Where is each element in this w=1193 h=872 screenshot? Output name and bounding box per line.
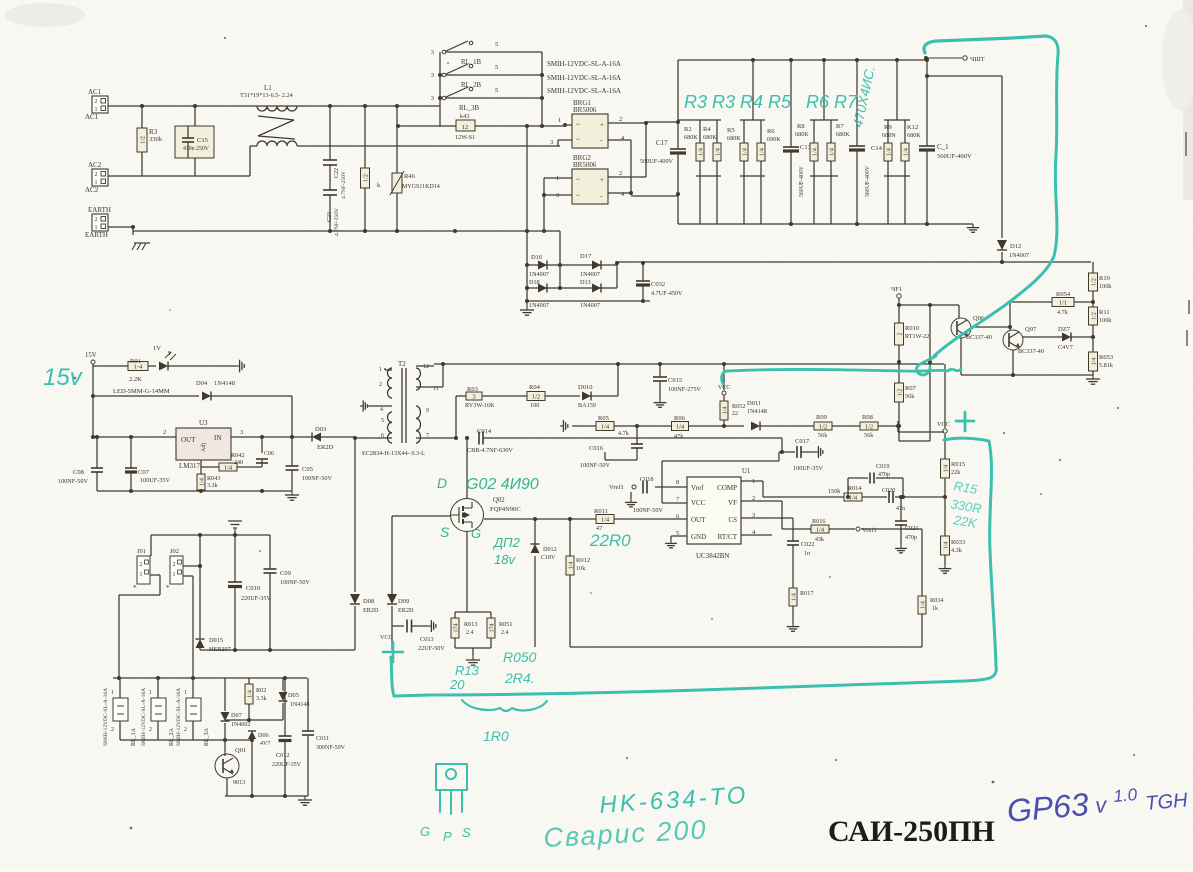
svg-text:8: 8 (676, 479, 679, 486)
svg-text:C14: C14 (871, 145, 883, 152)
svg-text:BA159: BA159 (578, 402, 596, 409)
svg-text:1N4148: 1N4148 (747, 408, 767, 415)
svg-text:3: 3 (431, 49, 434, 56)
svg-text:4.7UF-450V: 4.7UF-450V (651, 290, 683, 297)
svg-text:R06: R06 (674, 415, 686, 422)
svg-text:R012: R012 (576, 557, 590, 564)
svg-text:680K: 680K (684, 134, 698, 141)
svg-text:1: 1 (95, 225, 98, 231)
svg-text:1N4007: 1N4007 (529, 271, 549, 278)
svg-text:1/4: 1/4 (199, 478, 205, 486)
svg-text:22R0: 22R0 (589, 531, 631, 550)
svg-text:1.0: 1.0 (1113, 785, 1139, 806)
svg-text:4.7k: 4.7k (618, 430, 630, 437)
svg-text:+: + (600, 176, 604, 184)
svg-text:220UF-35V: 220UF-35V (241, 595, 271, 602)
svg-text:SMIH-12VDC-SL-A-16A: SMIH-12VDC-SL-A-16A (103, 688, 109, 746)
svg-text:1/2: 1/2 (865, 424, 873, 431)
svg-text:R01: R01 (130, 358, 141, 365)
svg-text:1/4: 1/4 (759, 148, 765, 156)
svg-text:AC1: AC1 (88, 88, 102, 96)
svg-text:2: 2 (163, 429, 166, 436)
svg-text:R043: R043 (207, 475, 220, 482)
svg-text:RL_3B: RL_3B (459, 105, 479, 112)
svg-text:Vref1: Vref1 (862, 527, 877, 534)
svg-text:SMIH-12VDC-SL-A-16A: SMIH-12VDC-SL-A-16A (176, 688, 182, 746)
svg-text:R014: R014 (848, 485, 861, 492)
svg-text:AC2: AC2 (85, 186, 99, 194)
svg-text:1N4002: 1N4002 (231, 722, 250, 728)
svg-text:2: 2 (111, 727, 114, 733)
svg-text:1/4: 1/4 (886, 148, 892, 156)
svg-text:1N4148: 1N4148 (290, 702, 309, 708)
svg-text:56k: 56k (818, 432, 828, 439)
svg-text:C014: C014 (477, 428, 492, 435)
svg-text:1: 1 (558, 117, 561, 124)
svg-text:D09: D09 (398, 598, 409, 605)
svg-text:C032: C032 (651, 281, 665, 288)
svg-text:100NF-50V: 100NF-50V (302, 475, 332, 482)
svg-text:3: 3 (240, 429, 243, 436)
svg-text:*: * (133, 584, 137, 592)
svg-text:ER2D: ER2D (363, 607, 379, 614)
svg-text:C08: C08 (73, 469, 84, 476)
svg-text:C010: C010 (246, 585, 260, 592)
svg-text:*: * (166, 584, 170, 592)
svg-text:1: 1 (149, 690, 152, 696)
svg-text:56k: 56k (864, 432, 874, 439)
svg-text:1: 1 (111, 690, 114, 696)
svg-text:R052: R052 (732, 403, 745, 410)
svg-text:R042: R042 (231, 452, 244, 459)
svg-text:L1: L1 (264, 84, 272, 92)
svg-text:R050: R050 (503, 649, 537, 665)
svg-text:C22: C22 (334, 168, 340, 178)
svg-text:4.7NF-250V: 4.7NF-250V (341, 171, 347, 199)
svg-text:U3: U3 (199, 419, 208, 427)
svg-text:22UF-50V: 22UF-50V (418, 645, 445, 652)
svg-text:9013: 9013 (233, 779, 245, 786)
svg-text:GND: GND (691, 533, 706, 541)
svg-text:1/4: 1/4 (722, 407, 728, 415)
svg-text:R010: R010 (905, 325, 919, 332)
svg-text:TGН: TGН (1145, 789, 1190, 815)
svg-text:T31*19*13-6.5- 2.24: T31*19*13-6.5- 2.24 (240, 92, 293, 99)
svg-text:43k: 43k (815, 537, 824, 543)
svg-text:5.81k: 5.81k (1099, 362, 1114, 369)
svg-text:C012: C012 (276, 752, 289, 759)
svg-text:BC337-40: BC337-40 (1018, 348, 1044, 355)
svg-text:~: ~ (576, 121, 580, 129)
svg-text:VF: VF (728, 499, 737, 507)
svg-text:R015: R015 (951, 461, 965, 468)
svg-text:R11: R11 (1099, 309, 1110, 316)
svg-text:C13: C13 (800, 144, 811, 151)
svg-text:R016: R016 (812, 518, 825, 525)
svg-text:680K: 680K (727, 135, 741, 142)
svg-text:ER2D: ER2D (398, 607, 414, 614)
svg-text:RL_3A: RL_3A (204, 727, 210, 746)
svg-text:VCC: VCC (380, 634, 393, 641)
svg-text:RL_1A: RL_1A (131, 727, 137, 746)
svg-text:R3: R3 (149, 128, 158, 136)
svg-text:240: 240 (234, 460, 243, 466)
svg-text:1/1: 1/1 (1059, 300, 1067, 307)
svg-text:5: 5 (381, 418, 384, 424)
svg-text:2: 2 (619, 170, 622, 177)
svg-text:R054: R054 (1056, 291, 1071, 298)
svg-text:RL_2A: RL_2A (169, 727, 175, 746)
svg-text:C020: C020 (882, 488, 895, 494)
svg-text:R46: R46 (404, 173, 416, 180)
svg-text:D16: D16 (531, 254, 543, 261)
svg-text:P: P (443, 829, 452, 844)
svg-text:1/4: 1/4 (903, 148, 909, 156)
svg-text:R9: R9 (884, 124, 892, 131)
svg-text:G: G (471, 526, 481, 541)
svg-text:22k: 22k (951, 469, 961, 476)
svg-text:220UF-35V: 220UF-35V (272, 762, 302, 768)
svg-text:2.4: 2.4 (501, 630, 509, 636)
svg-text:AC1: AC1 (85, 113, 99, 121)
svg-text:D18: D18 (529, 279, 540, 286)
svg-text:САИ-250ПН: САИ-250ПН (828, 815, 995, 848)
svg-text:DZ7: DZ7 (1058, 326, 1071, 333)
svg-text:R7: R7 (836, 123, 844, 130)
svg-text:VCC: VCC (691, 499, 706, 507)
svg-text:C022: C022 (801, 541, 814, 548)
svg-text:RL_1B: RL_1B (461, 59, 481, 66)
svg-text:R051: R051 (499, 621, 512, 628)
svg-text:12: 12 (423, 364, 429, 370)
svg-text:C15: C15 (197, 137, 208, 144)
svg-text:R011: R011 (594, 508, 608, 515)
svg-text:D010: D010 (578, 384, 592, 391)
svg-text:D011: D011 (747, 400, 761, 407)
svg-text:ЧШТ: ЧШТ (970, 56, 985, 63)
svg-text:D13: D13 (580, 279, 591, 286)
svg-text:U1: U1 (742, 468, 750, 475)
svg-text:C013: C013 (420, 636, 434, 643)
svg-text:20: 20 (449, 677, 465, 692)
svg-text:1/2: 1/2 (363, 174, 369, 182)
svg-text:D012: D012 (543, 546, 557, 553)
svg-text:4.7NF-250V: 4.7NF-250V (334, 208, 340, 236)
svg-text:IN: IN (214, 434, 221, 442)
svg-text:1/2: 1/2 (897, 389, 903, 397)
svg-text:ЧF1: ЧF1 (891, 286, 902, 293)
svg-text:22: 22 (732, 411, 738, 417)
svg-text:RT1W-22: RT1W-22 (905, 333, 929, 340)
svg-text:1k: 1k (932, 606, 938, 612)
svg-text:COMP: COMP (717, 484, 737, 492)
svg-text:150k: 150k (828, 488, 841, 495)
svg-text:1: 1 (173, 572, 176, 578)
svg-text:1/4: 1/4 (715, 148, 721, 156)
svg-text:R03: R03 (467, 386, 478, 393)
svg-text:C017: C017 (795, 438, 810, 445)
svg-text:470p: 470p (878, 472, 890, 478)
svg-text:~: ~ (576, 176, 580, 184)
svg-text:EARTH: EARTH (88, 206, 111, 214)
svg-text:1/4: 1/4 (601, 517, 610, 524)
svg-text:1/2: 1/2 (1091, 278, 1097, 286)
svg-text:2: 2 (95, 172, 98, 178)
svg-text:1/4: 1/4 (676, 424, 685, 431)
svg-text:15V: 15V (85, 352, 97, 359)
svg-text:S: S (462, 825, 471, 840)
svg-text:5: 5 (495, 87, 498, 94)
svg-text:100NF-50V: 100NF-50V (280, 579, 310, 586)
svg-text:2: 2 (184, 727, 187, 733)
svg-text:Q02: Q02 (493, 497, 505, 504)
svg-text:C05: C05 (302, 466, 313, 473)
svg-text:D04: D04 (196, 380, 208, 387)
svg-text:5: 5 (495, 41, 498, 48)
svg-text:1/4: 1/4 (943, 465, 949, 473)
svg-text:560UF-400V: 560UF-400V (937, 153, 972, 160)
svg-text:4: 4 (380, 407, 383, 413)
svg-text:C18V: C18V (541, 555, 556, 561)
svg-text:3: 3 (431, 72, 434, 79)
svg-text:C17: C17 (656, 139, 668, 147)
svg-text:BR5006: BR5006 (573, 161, 597, 169)
svg-text:SMIH-12VDC-SL-A-16A: SMIH-12VDC-SL-A-16A (141, 688, 147, 746)
svg-text:3: 3 (550, 139, 553, 146)
svg-text:Vref: Vref (691, 484, 704, 492)
svg-text:D015: D015 (209, 637, 223, 644)
svg-text:+: + (600, 121, 604, 129)
svg-text:~: ~ (576, 136, 580, 144)
svg-text:VCC: VCC (937, 421, 950, 428)
svg-text:1/4: 1/4 (943, 542, 949, 550)
svg-text:C_1: C_1 (937, 143, 949, 151)
svg-text:1/2: 1/2 (532, 394, 540, 401)
svg-text:R13: R13 (455, 663, 480, 678)
svg-text:560UF-400V: 560UF-400V (865, 165, 871, 197)
svg-text:R6 R7: R6 R7 (806, 92, 858, 112)
svg-text:ДП2: ДП2 (492, 535, 521, 550)
svg-text:1N4007: 1N4007 (580, 271, 600, 278)
svg-text:330k: 330k (149, 136, 163, 143)
svg-text:R013: R013 (464, 621, 477, 628)
svg-text:GP63: GP63 (1005, 786, 1090, 829)
svg-text:R04: R04 (529, 384, 541, 391)
svg-text:R4: R4 (703, 126, 711, 133)
svg-text:SMIH-12VDC-SL-A-16A: SMIH-12VDC-SL-A-16A (547, 87, 621, 95)
svg-text:1/4: 1/4 (247, 690, 253, 698)
svg-text:R05: R05 (598, 415, 609, 422)
svg-text:470n 250V: 470n 250V (183, 146, 210, 152)
svg-text:4.3k: 4.3k (951, 547, 963, 554)
svg-text:C23: C23 (327, 212, 333, 222)
svg-text:R3 R3 R4 R5: R3 R3 R4 R5 (684, 92, 792, 112)
svg-text:2: 2 (379, 382, 382, 388)
svg-text:1: 1 (184, 690, 187, 696)
svg-text:3: 3 (431, 95, 434, 102)
svg-text:1/4: 1/4 (829, 148, 835, 156)
svg-text:MYGS11KD14: MYGS11KD14 (402, 184, 440, 190)
svg-text:BC337-40: BC337-40 (966, 334, 992, 341)
svg-text:CS: CS (728, 516, 737, 524)
svg-text:174: 174 (489, 624, 495, 633)
svg-text:AC2: AC2 (88, 161, 102, 169)
svg-text:1V: 1V (153, 345, 161, 352)
svg-text:1/4: 1/4 (812, 148, 818, 156)
svg-text:J02: J02 (170, 548, 179, 555)
svg-text:100k: 100k (1099, 283, 1112, 290)
svg-text:2: 2 (173, 562, 176, 568)
svg-text:5: 5 (495, 64, 498, 71)
svg-text:D17: D17 (580, 253, 592, 260)
svg-text:R09: R09 (816, 414, 827, 421)
svg-text:680K: 680K (836, 131, 850, 138)
svg-text:Vref1: Vref1 (609, 484, 624, 491)
svg-text:C011: C011 (316, 735, 329, 742)
svg-text:1N4007: 1N4007 (529, 302, 549, 309)
svg-text:SMIH-12VDC-SL-A-16A: SMIH-12VDC-SL-A-16A (547, 60, 621, 68)
svg-text:680K: 680K (795, 131, 809, 138)
svg-text:J01: J01 (137, 548, 146, 555)
svg-text:C016: C016 (589, 445, 604, 452)
svg-text:UC3842BN: UC3842BN (696, 552, 729, 560)
svg-text:R8: R8 (797, 123, 805, 130)
svg-text:1: 1 (140, 572, 143, 578)
svg-text:1/4: 1/4 (791, 593, 797, 601)
svg-text:690K: 690K (767, 136, 781, 143)
svg-text:C09: C09 (280, 570, 291, 577)
svg-text:100NF-275V: 100NF-275V (668, 386, 702, 393)
svg-text:100: 100 (530, 402, 539, 409)
svg-text:G02 4И90: G02 4И90 (466, 476, 539, 493)
svg-text:C06: C06 (264, 451, 274, 457)
svg-text:1/4: 1/4 (568, 562, 574, 570)
svg-text:EC2834-H-13X44- 0.3-L: EC2834-H-13X44- 0.3-L (362, 450, 425, 457)
svg-text:1/4: 1/4 (1091, 358, 1097, 366)
svg-text:1n: 1n (804, 551, 810, 557)
svg-text:3: 3 (472, 394, 475, 401)
svg-text:R07: R07 (905, 385, 917, 392)
svg-text:470p: 470p (905, 535, 917, 541)
svg-text:K12: K12 (907, 124, 918, 131)
svg-text:CBB-4.7NF-630V: CBB-4.7NF-630V (467, 447, 513, 454)
svg-text:18v: 18v (494, 552, 516, 567)
svg-text:R2: R2 (684, 126, 692, 133)
svg-text:RT/CT: RT/CT (718, 533, 738, 541)
svg-text:R5: R5 (727, 127, 735, 134)
svg-text:OUT: OUT (181, 436, 196, 444)
svg-text:D07: D07 (231, 712, 242, 719)
svg-text:T2: T2 (398, 360, 406, 368)
svg-text:2: 2 (619, 116, 622, 123)
svg-text:1: 1 (379, 367, 382, 373)
svg-text:2: 2 (897, 333, 903, 336)
svg-text:FQP4N90C: FQP4N90C (490, 506, 521, 513)
svg-text:OUT: OUT (691, 516, 706, 524)
svg-text:R053: R053 (1099, 354, 1113, 361)
svg-text:R6: R6 (767, 128, 775, 135)
svg-text:4V7: 4V7 (260, 741, 270, 747)
svg-text:R02: R02 (256, 687, 266, 694)
svg-text:560UF-400V: 560UF-400V (799, 165, 805, 197)
svg-text:1N4007: 1N4007 (1009, 252, 1029, 259)
svg-text:D12: D12 (1010, 243, 1021, 250)
svg-text:S: S (440, 524, 450, 540)
svg-text:~: ~ (576, 192, 580, 200)
svg-text:1R0: 1R0 (483, 728, 509, 744)
svg-text:2R4.: 2R4. (504, 670, 535, 686)
svg-text:2: 2 (95, 99, 98, 105)
svg-text:10k: 10k (576, 565, 586, 572)
svg-text:Q01: Q01 (235, 747, 246, 754)
svg-text:C4V7: C4V7 (1058, 344, 1073, 351)
svg-text:2.2K: 2.2K (129, 376, 142, 383)
svg-text:C07: C07 (138, 469, 150, 476)
svg-text:EARTH: EARTH (85, 231, 108, 239)
svg-text:1/4: 1/4 (849, 495, 858, 502)
svg-text:SMIH-12VDC-SL-A-16A: SMIH-12VDC-SL-A-16A (547, 74, 621, 82)
svg-text:R034: R034 (930, 597, 943, 604)
svg-text:174: 174 (453, 624, 459, 633)
svg-text:2: 2 (95, 217, 98, 223)
svg-text:G: G (420, 824, 430, 839)
svg-text:1: 1 (95, 180, 98, 186)
svg-text:100UF-35V: 100UF-35V (140, 477, 170, 484)
svg-text:12: 12 (462, 124, 469, 131)
svg-text:k43: k43 (460, 113, 469, 120)
svg-text:2: 2 (140, 562, 143, 568)
svg-text:1/4: 1/4 (224, 465, 233, 472)
svg-text:1/4: 1/4 (920, 601, 926, 609)
svg-text:100NF-50V: 100NF-50V (633, 507, 663, 514)
svg-text:C019: C019 (876, 463, 889, 470)
svg-text:12W-S1: 12W-S1 (455, 134, 475, 141)
svg-text:RY3W-10K: RY3W-10K (465, 402, 495, 409)
svg-text:Adj: Adj (201, 443, 207, 452)
svg-text:D05: D05 (288, 692, 299, 699)
svg-text:C015: C015 (668, 377, 682, 384)
svg-text:R10: R10 (1099, 275, 1110, 282)
svg-text:LM317: LM317 (179, 462, 201, 470)
svg-text:1N4007: 1N4007 (580, 302, 600, 309)
svg-text:D03: D03 (315, 426, 326, 433)
svg-text:300NF-50V: 300NF-50V (316, 745, 346, 751)
svg-text:680K: 680K (907, 132, 921, 139)
svg-text:1/2: 1/2 (140, 136, 146, 144)
svg-text:1N4148: 1N4148 (214, 380, 235, 387)
svg-text:100NF-50V: 100NF-50V (58, 478, 88, 485)
svg-text:1/4: 1/4 (742, 148, 748, 156)
svg-text:1/2: 1/2 (819, 424, 827, 431)
svg-text:680N: 680N (882, 132, 896, 139)
svg-text:15v: 15v (43, 364, 84, 391)
svg-text:2.4: 2.4 (466, 630, 474, 636)
svg-text:Q07: Q07 (1025, 326, 1037, 333)
svg-text:2: 2 (149, 727, 152, 733)
svg-text:1/4: 1/4 (816, 527, 825, 534)
svg-text:100UF-35V: 100UF-35V (793, 465, 823, 472)
svg-text:D06: D06 (258, 732, 269, 739)
svg-text:R033: R033 (951, 539, 965, 546)
svg-text:9: 9 (426, 408, 429, 414)
svg-text:1/2: 1/2 (1091, 312, 1097, 320)
svg-text:BR5006: BR5006 (573, 106, 597, 114)
svg-text:D08: D08 (363, 598, 374, 605)
svg-text:1/4: 1/4 (601, 424, 610, 431)
svg-text:1/4: 1/4 (698, 148, 704, 156)
svg-text:RL_2B: RL_2B (461, 82, 481, 89)
svg-text:560UF-400V: 560UF-400V (640, 158, 674, 165)
